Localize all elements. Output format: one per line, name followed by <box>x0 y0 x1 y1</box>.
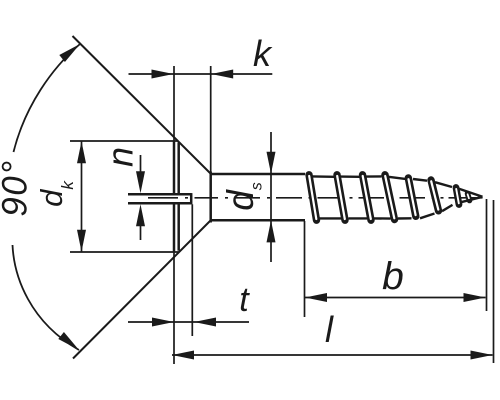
arrowhead t left <box>152 318 174 327</box>
thread crest 4 <box>385 175 395 220</box>
extension line dk bottom <box>70 251 179 253</box>
thread crest 3 <box>363 175 372 220</box>
shank bottom line <box>211 219 306 222</box>
construction line bottom (cone surface extended) <box>73 221 211 359</box>
extension line slot depth t <box>191 204 193 336</box>
construction line top (cone surface extended) <box>73 36 211 174</box>
cone-shank junction line <box>210 66 212 172</box>
thread outline top segments <box>313 176 483 196</box>
head face outer thick segment below slot <box>173 204 176 252</box>
svg-text:k: k <box>253 33 273 74</box>
arrowhead dk down <box>77 230 86 252</box>
arc arrowhead bottom <box>58 332 79 350</box>
thread crest 1 <box>309 175 317 220</box>
slot bottom line with extension <box>128 202 192 205</box>
extension line b right <box>486 199 488 311</box>
angle arc 90 deg upper segment <box>14 44 81 152</box>
dimension dk line <box>81 142 83 252</box>
thread crest 7 <box>456 188 459 205</box>
dimension ds arrow line top <box>270 132 272 262</box>
svg-text:l: l <box>325 309 334 350</box>
arrowhead k right <box>211 70 233 79</box>
arrowhead b right <box>464 293 486 302</box>
head face inner line below slot <box>177 204 180 250</box>
arrowhead dk up <box>77 141 86 163</box>
dimension t line <box>128 321 249 323</box>
slot bottom cap <box>190 193 193 204</box>
arrowhead t right <box>194 318 216 327</box>
svg-text:n: n <box>100 147 141 167</box>
svg-text:t: t <box>239 281 250 319</box>
thread crest 6 <box>431 180 439 211</box>
svg-text:b: b <box>382 256 404 299</box>
thread crest 2 <box>337 175 345 220</box>
arrowhead b left <box>305 293 327 302</box>
extension line l right <box>493 200 495 363</box>
dimension n arrow line bottom <box>140 225 142 240</box>
arrowhead l left <box>172 351 194 360</box>
dimension l line <box>172 354 493 356</box>
dimension n arrow line top <box>140 155 142 173</box>
dimension k line <box>129 73 273 75</box>
svg-text:90°: 90° <box>0 159 35 216</box>
thread crest 8 small <box>468 194 470 201</box>
extension line b left <box>304 221 306 317</box>
thread outline bottom segments <box>320 197 483 219</box>
arrowhead n top <box>136 171 145 193</box>
arrowhead ds bottom <box>267 220 276 242</box>
arrowhead ds top <box>267 152 276 174</box>
arc arrowhead top <box>59 44 80 62</box>
centerline dash-dot <box>148 197 483 199</box>
arrowhead l right <box>471 351 493 360</box>
thread crest 5 <box>408 178 416 216</box>
head face inner line above slot <box>177 143 180 194</box>
arrowhead n bottom <box>136 204 145 226</box>
head face outer thick segment above slot <box>173 142 176 194</box>
shank top line <box>211 173 306 176</box>
arrowhead k left <box>152 70 174 79</box>
slot top line with extension <box>128 193 192 196</box>
angle arc 90 deg lower segment <box>13 245 80 350</box>
head face outer line / extension line for k,t,l <box>173 66 175 193</box>
extension line dk top <box>70 140 179 142</box>
dimension b line <box>305 297 486 299</box>
